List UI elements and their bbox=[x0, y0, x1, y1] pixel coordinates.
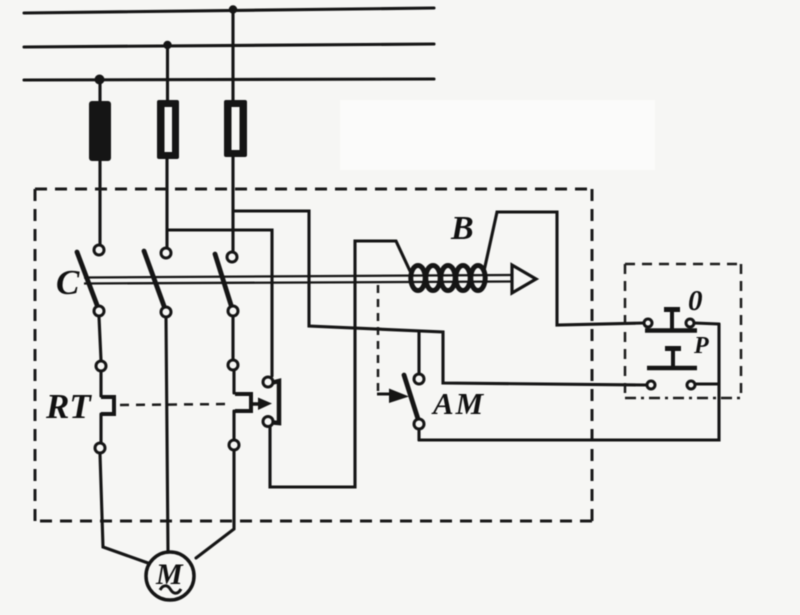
wire phase B fuse to contact bbox=[165, 159, 168, 247]
wire pole2 bottom to motor bbox=[166, 318, 168, 552]
stop button O bbox=[644, 310, 697, 331]
contactor C pole 2 blade bbox=[144, 251, 164, 306]
contactor C pole 2 bottom contact bbox=[161, 307, 171, 317]
AM dashed linkage from bar bbox=[377, 285, 380, 391]
junction dot phase B on L2 bbox=[163, 41, 171, 49]
wire P right to vertical bbox=[695, 382, 719, 385]
big dashed enclosure (contactor panel) bbox=[35, 189, 592, 521]
start button P bbox=[647, 349, 697, 390]
contactor C pole 1 top contact bbox=[94, 245, 104, 255]
wire RT-C to motor bbox=[196, 451, 234, 558]
supply line L1 bbox=[24, 8, 434, 13]
svg-text:0: 0 bbox=[688, 285, 703, 317]
junction dot phase C on L1 bbox=[229, 5, 237, 13]
contactor C pole 1 blade bbox=[77, 252, 97, 305]
contactor C pole 2 top contact bbox=[161, 248, 171, 258]
holding contact BK bottom terminal bbox=[263, 417, 273, 427]
RT heater element phase A bbox=[95, 361, 114, 453]
contactor C pole 3 bottom contact bbox=[228, 306, 238, 316]
wire pole1 bottom to RT bbox=[99, 317, 101, 360]
bottom return wire bbox=[419, 324, 719, 440]
svg-text:C: C bbox=[56, 263, 80, 302]
fuse F3 bbox=[224, 100, 247, 157]
wire branch from phase B to holding contact bbox=[168, 230, 273, 376]
contactor C pole 3 top contact bbox=[227, 252, 237, 262]
RT mechanical dashed link bbox=[120, 404, 231, 405]
wire phase A drop to fuse bbox=[98, 80, 101, 102]
armature linkage bar (double line) bbox=[84, 275, 512, 284]
holding contact BK bridge bbox=[273, 381, 279, 423]
svg-text:B: B bbox=[450, 210, 474, 247]
wire pole3 bottom to RT bbox=[231, 317, 234, 359]
wire coil-B left lead down to holding contact bbox=[270, 241, 410, 487]
wire phase B drop to fuse bbox=[166, 45, 169, 101]
junction dot phase A on L3 bbox=[95, 75, 105, 85]
linkage arrow head bbox=[512, 265, 536, 293]
fuse F1 bbox=[89, 101, 111, 161]
wire phase C drop to fuse bbox=[231, 10, 234, 101]
RT heater element phase C bbox=[228, 360, 251, 450]
AM actuation arrow bbox=[377, 389, 409, 404]
wire phase A fuse to contact bbox=[98, 161, 101, 244]
AM contact (automatic mode switch) bbox=[404, 332, 424, 440]
svg-text:RT: RT bbox=[45, 387, 92, 426]
pushbutton station dashed box bbox=[625, 264, 741, 398]
holding contact BK top terminal bbox=[263, 377, 273, 387]
wire coil-B right lead to stop button bbox=[484, 212, 644, 325]
wire RT-A to motor bbox=[100, 454, 148, 563]
fuse F2 bbox=[157, 100, 179, 159]
wire branch from phase C to control circuit bbox=[233, 211, 647, 385]
motor M bbox=[146, 552, 194, 600]
wire O right to vertical bbox=[694, 323, 719, 324]
wire phase C fuse to contact bbox=[231, 157, 234, 251]
contactor C pole 3 blade bbox=[215, 254, 231, 305]
svg-text:P: P bbox=[693, 333, 709, 359]
coil B loops bbox=[411, 266, 485, 291]
supply line L2 bbox=[24, 44, 434, 47]
supply line L3 bbox=[24, 79, 434, 80]
svg-text:AM: AM bbox=[431, 386, 485, 421]
contactor C pole 1 bottom contact bbox=[94, 306, 104, 316]
holding contact actuation arrow bbox=[251, 398, 272, 411]
